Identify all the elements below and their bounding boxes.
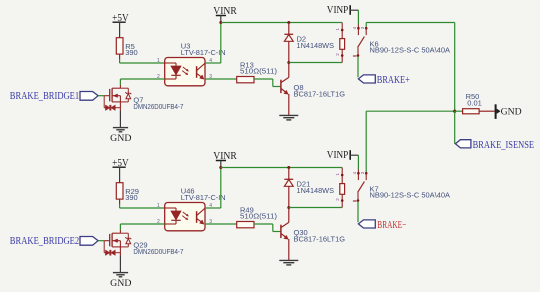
ground below mosfet	[110, 111, 132, 143]
wire R to opto pin1	[120, 54, 165, 63]
wire coil bottom rail	[289, 62, 342, 64]
svg-text:BRAKE_BRIDGE1: BRAKE_BRIDGE1	[10, 91, 79, 102]
port BRAKE_BRIDGE2	[10, 236, 98, 247]
transistor Q30 BC817-16LT1G npn	[281, 208, 345, 261]
svg-text:BC817-16LT1G: BC817-16LT1G	[294, 234, 346, 243]
power port VINP	[327, 150, 359, 161]
transistor Q8 BC817-16LT1G npn	[281, 63, 345, 116]
wire R to Q base	[254, 79, 281, 87]
svg-text:0.01: 0.01	[467, 99, 482, 108]
svg-text:BC817-16LT1G: BC817-16LT1G	[294, 89, 346, 98]
wire opto pin2 to Q gate-drain	[120, 224, 164, 230]
svg-text:1: 1	[157, 203, 160, 209]
svg-text:390: 390	[125, 193, 138, 202]
power port GND right	[496, 104, 522, 119]
optocoupler U3 LTV-817-C-IN	[157, 42, 226, 86]
svg-text:LTV-817-C-IN: LTV-817-C-IN	[181, 193, 226, 202]
wire K7 common to BRAKE-	[357, 202, 359, 223]
relay contact K6 NB90-12S-S-C	[352, 10, 450, 57]
diode D21 1N4148WS	[284, 168, 334, 208]
svg-text:GND: GND	[110, 278, 132, 288]
power +5V port (+5V)	[112, 158, 129, 183]
resistor R13 510	[237, 60, 278, 82]
node VINR junction	[219, 166, 222, 169]
wire opto pin4 to VINR	[205, 168, 221, 209]
resistor R5 390	[116, 38, 137, 57]
power port VINR	[213, 151, 237, 168]
resistor R50 0.01 shunt	[455, 92, 482, 114]
svg-text:LTV-817-C-IN: LTV-817-C-IN	[181, 48, 226, 57]
svg-text:BRAKE−: BRAKE−	[377, 219, 406, 231]
svg-text:1N4148WS: 1N4148WS	[297, 41, 335, 50]
wire port to gate	[98, 95, 104, 97]
transistor Q29 DMN26D0UFB4-7 n-mosfet	[104, 230, 183, 256]
optocoupler U46 LTV-817-C-IN	[157, 187, 226, 231]
wire opto pin2 to Q gate-drain	[120, 79, 164, 85]
svg-text:NB90-12S-S-C 50A\40A: NB90-12S-S-C 50A\40A	[370, 190, 451, 199]
svg-text:NB90-12S-S-C 50A\40A: NB90-12S-S-C 50A\40A	[370, 45, 451, 54]
relay coil K7	[335, 168, 345, 208]
svg-text:1: 1	[157, 58, 160, 64]
node VINR junction	[219, 21, 222, 24]
node D cathode junction	[287, 206, 290, 209]
port BRAKE_ISENSE	[455, 140, 534, 151]
port BRAKE+	[358, 74, 409, 86]
svg-text:VINP: VINP	[327, 150, 349, 161]
port BRAKE_BRIDGE1	[10, 91, 98, 102]
power port VINP	[327, 5, 359, 16]
relay contact K7 NB90-12S-S-C	[352, 155, 450, 202]
node D cathode junction	[287, 61, 290, 64]
svg-text:BRAKE+: BRAKE+	[377, 74, 410, 86]
ground below npn	[279, 260, 298, 265]
relay coil K6	[335, 23, 345, 63]
wire R to opto pin1	[120, 199, 165, 208]
svg-text:GND: GND	[501, 107, 522, 118]
wire opto pin4 to VINR	[205, 23, 221, 64]
node sense junction	[453, 110, 456, 113]
wire R50 to GND port	[479, 110, 495, 112]
wire port to gate	[98, 240, 104, 242]
power +5V port (+5V)	[112, 13, 129, 38]
wire opto pin3 to resistor R13	[205, 78, 237, 80]
port BRAKE-	[358, 219, 406, 231]
ground below npn	[279, 115, 298, 120]
svg-text:DMN26D0UFB4-7: DMN26D0UFB4-7	[133, 102, 183, 111]
wire coil bottom rail	[289, 207, 342, 209]
wire sense node to BRAKE_ISENSE	[454, 111, 456, 144]
transistor Q7 DMN26D0UFB4-7 n-mosfet	[104, 85, 183, 111]
node D anode junction	[287, 21, 290, 24]
diode D2 1N4148WS	[284, 23, 334, 63]
ground below mosfet	[110, 256, 132, 288]
resistor R49 510	[237, 205, 278, 227]
svg-text:510Ω(511): 510Ω(511)	[240, 212, 278, 221]
svg-text:BRAKE_BRIDGE2: BRAKE_BRIDGE2	[10, 236, 79, 247]
svg-text:VINP: VINP	[327, 5, 349, 16]
svg-text:1N4148WS: 1N4148WS	[297, 186, 335, 195]
svg-text:GND: GND	[110, 133, 132, 143]
wire opto pin3 to resistor R49	[205, 223, 237, 225]
wire K6 common to BRAKE+	[357, 57, 359, 78]
svg-text:510Ω(511): 510Ω(511)	[240, 67, 278, 76]
wire R to Q base	[254, 224, 281, 232]
wire K7 output riser to sense node	[366, 111, 455, 167]
svg-text:390: 390	[125, 48, 138, 57]
wire K6 output to sense node	[366, 23, 455, 112]
svg-text:DMN26D0UFB4-7: DMN26D0UFB4-7	[133, 247, 183, 256]
power port VINR	[213, 6, 237, 23]
wire VINR rail	[221, 167, 342, 169]
wire VINR rail	[221, 22, 342, 24]
resistor R29 390	[116, 183, 139, 202]
svg-text:BRAKE_ISENSE: BRAKE_ISENSE	[473, 140, 534, 151]
node D anode junction	[287, 166, 290, 169]
